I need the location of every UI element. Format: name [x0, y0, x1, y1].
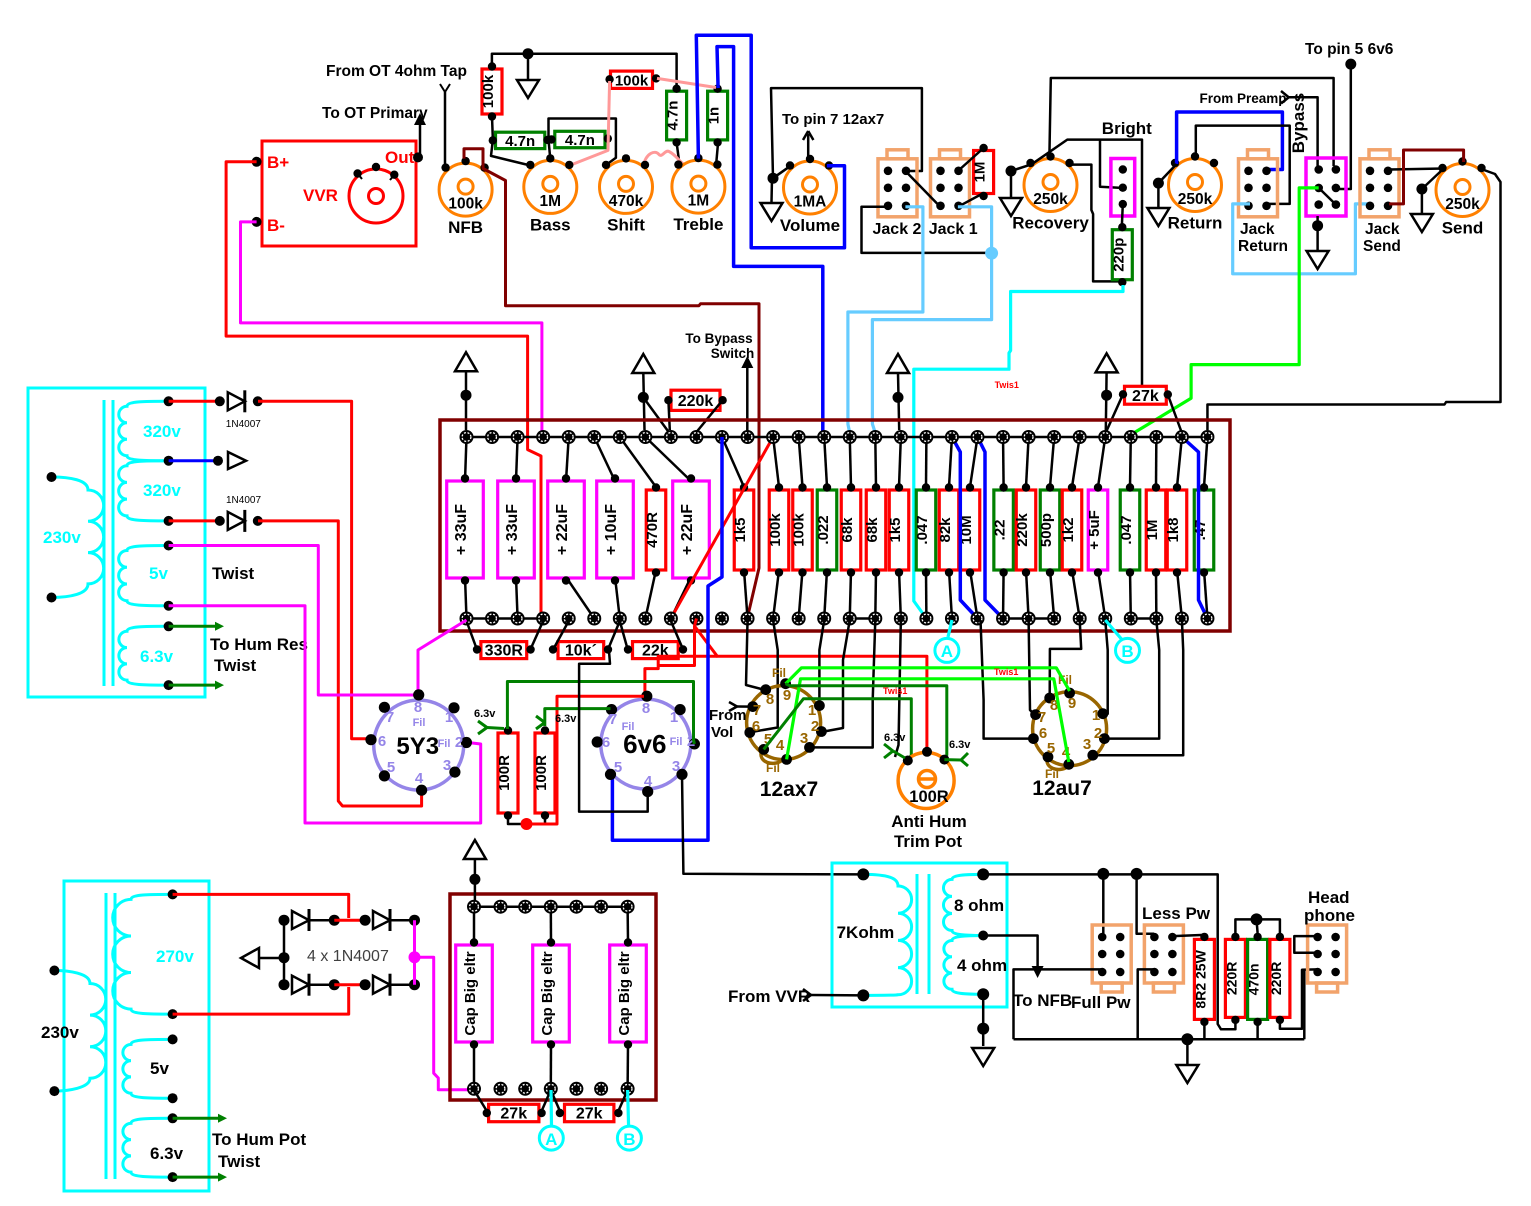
black wire bottom k14 to 12ax7 pin1 — [819, 620, 824, 704]
lead 82k top to turret — [949, 437, 952, 487]
svg-text:6.3v: 6.3v — [949, 739, 971, 751]
connector From OT 4ohm tap — [440, 84, 445, 92]
svg-text:To Bypass: To Bypass — [685, 331, 752, 346]
green wire 100R right top to 6v6 pin7 — [545, 709, 611, 726]
Bypass ground — [1316, 216, 1319, 250]
svg-text:From OT 4ohm Tap: From OT 4ohm Tap — [326, 63, 467, 80]
svg-text:Twist: Twist — [218, 1152, 261, 1171]
svg-text:A: A — [545, 1130, 557, 1149]
pink wire Shift right lug to Treble left lug — [643, 151, 684, 166]
node B circle cap board — [617, 1126, 641, 1150]
potentiometer Treble 1M — [672, 160, 725, 213]
12ax7 pin dots — [780, 678, 791, 689]
svg-text:1k5: 1k5 — [732, 517, 749, 542]
svg-text:To Hum Pot: To Hum Pot — [212, 1130, 306, 1149]
lead 68k bottom to turret — [850, 570, 851, 619]
resistor 10k below board — [558, 642, 604, 659]
svg-text:1k2: 1k2 — [1060, 517, 1077, 542]
lead 1M bottom to turret — [1155, 570, 1158, 619]
electrolytic Cap Big eltr 3 — [626, 907, 629, 941]
lead 470R top to turret — [620, 437, 656, 487]
5Y3 pin dots — [413, 689, 424, 700]
svg-text:6.3v: 6.3v — [555, 713, 577, 725]
svg-text:100R: 100R — [533, 755, 550, 791]
PT2 6.3v wire lower — [173, 1176, 220, 1179]
lead 82k bottom to turret — [949, 570, 952, 619]
top turret bus wire — [467, 436, 1208, 439]
svg-text:100k: 100k — [791, 513, 808, 547]
svg-text:To pin 5 6v6: To pin 5 6v6 — [1305, 41, 1394, 58]
black wire bottom k15 to 12ax7 pin2 — [824, 620, 850, 732]
wire Bright bottom to 220p top — [1121, 204, 1124, 225]
svg-text:+ 10uF: + 10uF — [603, 504, 620, 555]
svg-text:6: 6 — [378, 733, 386, 750]
svg-text:27k: 27k — [1132, 388, 1159, 405]
PT1 winding 320v lower — [119, 461, 169, 521]
wire 4.7n to Bass left lug — [491, 140, 532, 166]
black wire bottom k27 to 12au7 pin2 — [1106, 620, 1159, 739]
svg-text:100R: 100R — [909, 788, 949, 806]
lead 100k bottom to turret — [773, 570, 779, 619]
jack socket Head phone — [1308, 925, 1347, 983]
svg-text:1M: 1M — [972, 162, 989, 183]
capacitor .047 on board — [916, 490, 936, 570]
svg-text:2: 2 — [811, 718, 819, 735]
junction dot full pw — [1097, 868, 1109, 880]
wire Send left lug to ground — [1422, 169, 1444, 190]
svg-text:Trim Pot: Trim Pot — [894, 832, 962, 851]
cyan stem to node A cap board — [549, 1090, 553, 1127]
wire 6v6 pin4 to 10k resistor — [579, 651, 648, 812]
cyan stem to node B cap board — [628, 1090, 629, 1127]
output transformer OT outline — [832, 863, 1007, 1007]
wire 4.7n junction to Bass wiper — [549, 140, 551, 160]
wire Return wiper to Jack Return bottom-right — [1196, 126, 1290, 204]
jack socket Jack Send — [1360, 159, 1399, 217]
wire Less Pw bottom-left to rail — [1138, 969, 1155, 1039]
bottom turrets — [460, 612, 474, 626]
Bright switch body — [1111, 159, 1135, 217]
svg-text:Head: Head — [1308, 888, 1350, 907]
resistor 100R left — [498, 733, 518, 813]
wire Recovery left lug to ground dot — [1011, 164, 1032, 171]
svg-text:Bypass: Bypass — [1289, 93, 1308, 153]
tube 5Y3 socket — [374, 700, 464, 790]
capacitor 1n vertical — [708, 91, 728, 140]
wire 8R2 bottom to rail — [1203, 1024, 1206, 1040]
svg-text:.47: .47 — [1192, 520, 1209, 541]
jack socket Jack 2 — [878, 159, 917, 217]
OT primary winding 7Kohm — [863, 874, 911, 995]
jack socket Jack Return — [1239, 159, 1278, 217]
lead 330R left to turret k0 — [467, 621, 477, 647]
bottom turret links k21-k23 — [1003, 617, 1054, 620]
cap board ground — [474, 856, 477, 907]
VVR pot circle — [349, 169, 403, 223]
resistor 470R on board — [646, 490, 666, 570]
wire Return left lug to ground — [1158, 164, 1176, 183]
PT2 6.3v wire upper — [173, 1117, 220, 1120]
arrow volume wiper to pin7 12ax7 — [807, 134, 810, 157]
capacitor 4.7n horizontal first — [496, 132, 545, 148]
VVR regulator box — [262, 141, 416, 246]
ground above board at turret k17 — [887, 354, 909, 373]
lead + 5uF bottom to turret — [1098, 570, 1105, 619]
lead 100k bottom to turret — [799, 570, 803, 619]
svg-text:250k: 250k — [1445, 196, 1480, 213]
wire Jack Send top-right to Send left lug — [1388, 169, 1444, 170]
capacitor + 5uF on board — [1088, 490, 1108, 570]
svg-text:VVR: VVR — [303, 186, 338, 205]
wire From VVR to OT — [811, 994, 863, 997]
svg-text:Out: Out — [385, 148, 415, 167]
red junction dot — [521, 818, 533, 830]
svg-text:470k: 470k — [609, 193, 644, 210]
svg-text:6.3v: 6.3v — [884, 732, 906, 744]
svg-text:Fil: Fil — [766, 761, 780, 775]
PT2 winding 270v — [113, 894, 173, 1014]
lead 1M top to turret — [1155, 437, 1158, 487]
resistor 220R second — [1270, 939, 1290, 1017]
svg-text:A: A — [941, 642, 953, 661]
svg-text:10k´: 10k´ — [565, 643, 597, 660]
tube 6v6 socket — [601, 699, 691, 789]
svg-text:6: 6 — [602, 734, 610, 751]
black wire bottom k16 to 12ax7 pin3 — [811, 620, 875, 748]
svg-text:8: 8 — [414, 699, 422, 716]
svg-text:.047: .047 — [1118, 515, 1135, 544]
wire diode D1 to 5Y3 pin6 (red) — [258, 401, 371, 738]
ground above board at turret k7 — [632, 354, 654, 373]
svg-text:Cap Big eltr: Cap Big eltr — [462, 951, 479, 1035]
svg-text:B: B — [1121, 642, 1133, 661]
node B circle — [1116, 638, 1140, 662]
resistor 10M on board — [960, 490, 980, 570]
svg-text:1M: 1M — [688, 193, 710, 210]
bridge ground — [241, 948, 259, 968]
wire OT secondary top to speaker jacks — [983, 874, 1235, 1029]
rail ground stem — [1181, 1033, 1193, 1045]
PT1 secondary terminal dots — [164, 396, 174, 406]
wire bridge 4.7n junction over Bass to Shift left lug — [549, 119, 616, 166]
lead + 33uF bottom to turret — [516, 577, 518, 619]
black wire bottom k24 to 12au7 pin8 — [1050, 620, 1082, 695]
bridge diode D5 — [279, 979, 290, 990]
light blue wire Jack2 bottom-mid to board — [848, 207, 923, 433]
lead + 22uF bottom to turret — [566, 577, 594, 619]
lead 10k right to turret k6 — [609, 621, 620, 647]
svg-text:1: 1 — [670, 709, 678, 726]
lead 10M bottom to turret — [970, 570, 978, 619]
bright green heater wire pin4 to pin4 — [787, 679, 1069, 762]
wire Jack1 bottom-right to 1M bottom — [958, 193, 984, 207]
bridge left junction wire — [283, 920, 286, 985]
svg-text:4.7n: 4.7n — [505, 133, 535, 150]
svg-text:250k: 250k — [1178, 191, 1213, 208]
PT2 primary terminal dots — [49, 966, 59, 976]
black wire bottom k11 to 12ax7 pin8 — [746, 620, 764, 690]
svg-text:100k: 100k — [448, 196, 483, 213]
blue wire 1n top over to board — [717, 47, 823, 434]
lead 1k2 top to turret — [1072, 437, 1080, 487]
svg-text:.22: .22 — [992, 520, 1009, 541]
lead 500p top to turret — [1050, 437, 1054, 487]
svg-text:Jack: Jack — [1365, 221, 1400, 238]
capacitor 470n — [1248, 939, 1268, 1019]
resistor 220R first — [1225, 939, 1245, 1017]
potentiometer Bass 1M — [524, 160, 577, 213]
node A circle — [935, 638, 959, 662]
rail to headphone bottom-left — [1303, 970, 1306, 1039]
svg-text:Twis1: Twis1 — [995, 380, 1019, 390]
black hooks 100R bottoms to red junction — [508, 817, 523, 824]
blue wire top k10 to 6v6 pin5 — [611, 437, 723, 840]
svg-text:3: 3 — [443, 757, 451, 774]
svg-text:From: From — [709, 707, 747, 724]
lead + 22uF top to turret — [566, 437, 569, 481]
svg-text:To Hum Res: To Hum Res — [210, 635, 308, 654]
wire VVR B- magenta to board — [241, 222, 542, 433]
junction dot on rail — [523, 48, 534, 59]
potentiometer Volume 1MA — [784, 161, 837, 214]
potentiometer Shift 470k — [600, 160, 653, 213]
svg-text:Twis1: Twis1 — [883, 686, 907, 696]
black wire bottom k25 to 12au7 pin1 — [1105, 620, 1108, 714]
svg-text:1N4007: 1N4007 — [226, 495, 261, 506]
connector From Preamp — [1281, 91, 1289, 97]
lead .047 top to turret — [1129, 437, 1132, 487]
trim pot lugs — [903, 756, 913, 766]
Bypass lever — [1319, 188, 1336, 205]
tube 12ax7 socket — [747, 686, 821, 760]
svg-text:5: 5 — [614, 759, 622, 776]
svg-text:1: 1 — [445, 709, 453, 726]
lead 1k5 bottom to turret — [899, 570, 901, 619]
svg-text:220k: 220k — [678, 393, 714, 410]
wire Recovery left lug to 27k and bright branch — [1032, 140, 1142, 387]
svg-text:220R: 220R — [1223, 962, 1239, 995]
resistor 100k horizontal (treble) — [611, 71, 653, 88]
potentiometer Send 250k — [1436, 164, 1489, 217]
lead 68k top to turret — [874, 437, 877, 487]
resistor 27k above board — [1125, 386, 1167, 404]
svg-text:7: 7 — [609, 711, 617, 728]
power transformer PT1 outline — [28, 388, 205, 697]
svg-text:1k5: 1k5 — [887, 517, 904, 542]
capacitor 4.7n vertical — [667, 91, 687, 140]
lead 68k bottom to turret — [874, 570, 877, 619]
wire Recovery wiper up over to Bypass — [1049, 78, 1333, 166]
svg-text:1MA: 1MA — [794, 194, 827, 211]
green wire 100R left top to 6v6 pin2 — [507, 682, 694, 744]
wire Full Pw bottom-left to rail — [1014, 969, 1103, 1039]
svg-text:To NFB: To NFB — [1013, 991, 1072, 1010]
wire To pin 5 6v6 down to Bypass mid-right — [1345, 59, 1356, 70]
green Y connector trim left — [884, 744, 893, 751]
PT2 winding 6.3v — [123, 1118, 173, 1177]
wire Volume left lug to ground and Jack2 — [773, 166, 791, 178]
svg-text:Fil: Fil — [670, 736, 683, 748]
attenuator top links — [1235, 919, 1280, 933]
svg-text:5Y3: 5Y3 — [396, 733, 439, 760]
svg-text:Fil: Fil — [622, 721, 635, 733]
svg-text:Vol: Vol — [711, 724, 733, 741]
resistor 220k above board — [671, 390, 720, 410]
svg-text:.022: .022 — [815, 515, 832, 544]
wire 100k bottom to 4.7n — [491, 114, 494, 138]
wire from OT tap to NFB left lug — [444, 92, 447, 169]
PT1 winding 320v upper — [119, 401, 169, 460]
lead + 10uF bottom to turret — [615, 577, 620, 619]
wire Jack1 top-right to 1M top — [958, 148, 984, 171]
top turrets — [460, 430, 474, 444]
potentiometer NFB 100k — [439, 163, 492, 216]
wire 1n bottom to Treble right lug — [716, 142, 718, 166]
lead + 22uF top to turret — [645, 437, 691, 481]
jack socket Less Pw — [1144, 925, 1183, 983]
wire Jack2 bottom-left loop to junction — [862, 207, 989, 253]
red wire link bottom k8 to top k12 — [671, 437, 773, 619]
resistor 1k5 on board — [889, 490, 909, 570]
svg-text:1N4007: 1N4007 — [226, 419, 261, 430]
wire Recovery right lug to 220p bottom — [1068, 165, 1120, 282]
svg-text:1k8: 1k8 — [1165, 517, 1182, 542]
lead + 33uF bottom to turret — [465, 577, 467, 619]
red wire bottom k9 to 6v6 pin8 and trim pot — [659, 619, 697, 666]
magenta wire PT1 5v lower to 5Y3 pin2 — [169, 606, 481, 823]
PT2 secondary terminal dots — [168, 889, 178, 899]
red wire PT2 270v bottom to bridge — [173, 987, 349, 1014]
lead 220k top to turret — [1026, 437, 1029, 487]
main turret board outline — [440, 420, 1230, 631]
branch to Bright switch middle — [1100, 140, 1119, 188]
svg-text:Less Pw: Less Pw — [1142, 904, 1211, 923]
wire Less Pw top-right to 8R2 — [1173, 935, 1204, 936]
svg-text:+ 22uF: + 22uF — [679, 504, 696, 555]
svg-text:Send: Send — [1363, 238, 1401, 255]
light blue junction dot — [985, 247, 998, 260]
wire 220R second bottom to headphone — [1280, 969, 1317, 1028]
capacitor .022 on board — [817, 490, 837, 570]
svg-text:8: 8 — [642, 700, 650, 717]
PT2 winding 5v — [123, 1039, 173, 1098]
Bypass pins — [1314, 165, 1323, 174]
resistor 68k on board — [841, 490, 861, 570]
ground stem below rail dot — [527, 54, 530, 79]
blue wire board k19 to k20 — [952, 437, 978, 619]
ground symbol below rail — [517, 80, 539, 98]
svg-text:250k: 250k — [1033, 191, 1068, 208]
svg-text:100k: 100k — [615, 72, 649, 89]
cap board bottom turrets — [467, 1082, 481, 1096]
svg-text:Bright: Bright — [1102, 119, 1152, 138]
svg-text:NFB: NFB — [448, 218, 483, 237]
junction dot less pw — [1131, 868, 1143, 880]
light blue wire Jack1 lower to board (A net) — [872, 207, 991, 433]
svg-text:4: 4 — [776, 737, 785, 754]
12au7 pin dots — [1064, 688, 1075, 699]
magenta wire PT1 5v to 5Y3 pin8 — [169, 546, 415, 696]
svg-text:12ax7: 12ax7 — [760, 778, 818, 801]
wire PT1 320v mid blue stub — [169, 459, 218, 462]
magenta wire bridge output to cap board — [413, 920, 416, 985]
connector From VVR — [803, 989, 811, 995]
lead + 22uF bottom to turret — [671, 577, 691, 619]
jack socket Full Pw — [1092, 925, 1131, 983]
svg-text:Fil: Fil — [438, 738, 451, 750]
svg-text:Anti Hum: Anti Hum — [891, 812, 967, 831]
lead 330R right to turret k3 — [532, 621, 544, 647]
lead 1k5 top to turret — [899, 437, 901, 487]
potentiometer Return 250k — [1169, 159, 1222, 212]
svg-text:B-: B- — [267, 216, 285, 235]
svg-text:500p: 500p — [1038, 513, 1055, 547]
bottom turret links k0-k3 — [467, 617, 544, 620]
bridge diode D6 — [360, 979, 371, 990]
resistor 68k on board — [866, 490, 886, 570]
PT1 primary terminal dots — [47, 472, 57, 482]
tube 12au7 socket — [1033, 692, 1107, 766]
cyan stem bottom k19 to node A — [948, 620, 952, 637]
lead .047 bottom to turret — [1129, 570, 1132, 619]
wire PT1 320v upper to diode D1 — [169, 400, 220, 403]
wire 4.7n vertical bottom to Treble left lug — [677, 142, 680, 166]
wire Jack2 top-right to Jack1 bottom-left — [905, 171, 940, 207]
svg-text:330R: 330R — [485, 643, 524, 660]
svg-text:470R: 470R — [644, 512, 661, 548]
svg-text:7: 7 — [386, 709, 394, 726]
resistor 1M on board — [1146, 490, 1166, 570]
VVR terminal B- dot — [252, 217, 262, 227]
lead 10k left to turret k4 — [555, 621, 569, 647]
svg-text:68k: 68k — [864, 517, 881, 543]
green wire Bypass mid-left to board — [1132, 188, 1319, 434]
bottom turret links k15-k16 — [850, 617, 876, 620]
VVR terminal B+ dot — [252, 157, 262, 167]
svg-text:2: 2 — [1094, 725, 1102, 742]
OT core — [916, 874, 919, 994]
ground left of Recovery — [1000, 198, 1022, 216]
light blue wire Jack Return to Jack Send — [1233, 204, 1369, 274]
capacitor + 33uF on board — [447, 481, 484, 578]
lead 500p bottom to turret — [1050, 570, 1054, 619]
wire 100k top rail with ground — [492, 54, 677, 88]
svg-text:5: 5 — [1047, 740, 1055, 757]
svg-text:Jack 2: Jack 2 — [873, 221, 922, 238]
wire to Full Pw top-left pin — [1102, 874, 1105, 934]
resistor 8R2 25W — [1194, 939, 1214, 1019]
dark green wire pin9 to trim pot right lug — [786, 684, 947, 760]
svg-text:220k: 220k — [1014, 513, 1031, 547]
power transformer PT2 outline — [64, 881, 209, 1191]
ground below Send left — [1411, 214, 1433, 232]
svg-text:68k: 68k — [839, 517, 856, 543]
lead 100k top to turret — [799, 437, 803, 487]
lead 220k bottom to turret — [1026, 570, 1029, 619]
wire OT 4ohm tap to NFB arrow — [983, 936, 1037, 967]
wire to Less Pw top-left pin — [1137, 874, 1154, 934]
cap board top bus — [474, 905, 628, 908]
lead + 5uF top to turret — [1098, 437, 1105, 487]
bridge diode D4 — [360, 915, 371, 926]
svg-text:Cap Big eltr: Cap Big eltr — [616, 951, 633, 1035]
open arrow symbol at 320v mid — [213, 456, 223, 466]
svg-text:Treble: Treble — [673, 215, 723, 234]
svg-text:220p: 220p — [1110, 238, 1127, 272]
svg-text:1: 1 — [808, 702, 816, 719]
maroon wire Send wiper to Jack Send bottom-right — [1389, 150, 1464, 204]
capacitor 500p on board — [1040, 490, 1060, 570]
